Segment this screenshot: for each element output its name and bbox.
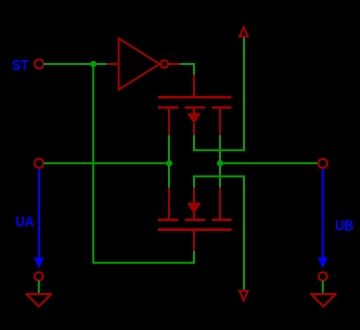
transistor Q2 NMOS channel segment right xyxy=(212,219,232,222)
wire NMOS bulk to negative rail xyxy=(194,176,244,289)
transistor Q2 NMOS gate lead xyxy=(193,231,195,252)
transistor Q1 PMOS gate bar xyxy=(158,96,232,99)
ground symbol left xyxy=(26,294,51,306)
inverter U1 triangle xyxy=(119,38,160,89)
svg-text:UB: UB xyxy=(335,218,354,234)
transistor Q1 PMOS gate lead xyxy=(193,75,195,96)
wire inverter output to PMOS gate xyxy=(180,64,194,76)
transistor Q1 PMOS channel segment middle xyxy=(185,106,205,109)
transistor Q2 NMOS bulk arrow xyxy=(187,203,201,214)
junction ST node xyxy=(90,61,96,67)
transistor Q2 NMOS bulk lead xyxy=(193,188,195,204)
terminal ST xyxy=(35,60,44,69)
svg-text:UA: UA xyxy=(16,214,35,230)
power symbol positive rail xyxy=(240,27,248,36)
junction node A left xyxy=(166,160,172,166)
terminal left IO xyxy=(35,159,44,168)
transistor Q2 NMOS channel segment left xyxy=(158,219,178,222)
transistor Q2 NMOS drain lead xyxy=(219,188,221,220)
terminal UB bottom xyxy=(319,272,327,280)
wire junction to inverter input xyxy=(93,63,106,65)
terminal right IO xyxy=(318,159,327,168)
transistor Q1 PMOS bulk stub xyxy=(193,108,195,115)
transistor Q2 NMOS bulk stub xyxy=(193,212,195,220)
inverter U1 output pin xyxy=(168,63,180,65)
wire NMOS gate feedback to ST junction xyxy=(93,64,194,263)
transistor Q1 PMOS bulk arrow xyxy=(187,113,201,123)
wire UA terminal to ground xyxy=(38,281,40,294)
wire ST terminal to junction xyxy=(44,63,94,65)
transistor Q1 PMOS channel segment right xyxy=(212,106,232,109)
svg-text:ST: ST xyxy=(12,57,29,74)
transistor Q1 PMOS bulk lead xyxy=(193,123,195,136)
transistor Q2 NMOS channel segment middle xyxy=(185,219,205,222)
arrow UB voltage xyxy=(318,169,328,269)
junction node B right xyxy=(217,160,223,166)
transistor Q2 NMOS source lead xyxy=(168,188,170,220)
transistor Q2 NMOS gate bar xyxy=(158,228,232,231)
terminal UA bottom xyxy=(35,272,43,280)
transistor Q1 PMOS drain lead xyxy=(219,108,221,136)
wire left terminal to node A xyxy=(44,162,170,164)
ground symbol right xyxy=(311,294,336,306)
wire UB terminal to ground xyxy=(322,281,324,294)
wire right column between transistors xyxy=(219,135,221,188)
inverter U1 inversion bubble xyxy=(161,60,168,67)
inverter U1 input pin xyxy=(107,63,119,65)
transistor Q1 PMOS channel segment left xyxy=(158,106,178,109)
wire node B to right terminal xyxy=(220,162,318,164)
wire left column between transistors xyxy=(168,135,170,188)
wire PMOS bulk to positive rail xyxy=(194,37,244,150)
arrow UA voltage xyxy=(34,169,44,269)
transistor Q1 PMOS source lead xyxy=(168,108,170,136)
power symbol negative rail xyxy=(240,291,248,301)
